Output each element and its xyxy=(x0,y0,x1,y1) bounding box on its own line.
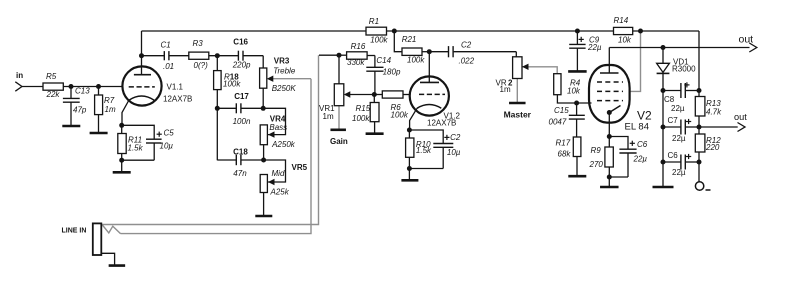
svg-text:C1: C1 xyxy=(161,41,171,50)
svg-text:C2: C2 xyxy=(450,133,461,142)
svg-text:C14: C14 xyxy=(376,56,391,65)
svg-text:R17: R17 xyxy=(556,138,571,147)
svg-text:in: in xyxy=(16,71,23,80)
svg-text:A250k: A250k xyxy=(271,140,296,149)
svg-text:1.5k: 1.5k xyxy=(416,146,432,155)
svg-text:R14: R14 xyxy=(614,16,629,25)
svg-text:1m: 1m xyxy=(500,85,511,94)
svg-text:R3000: R3000 xyxy=(672,65,696,74)
svg-text:220p: 220p xyxy=(232,61,251,70)
svg-text:R21: R21 xyxy=(402,35,417,44)
svg-text:C2: C2 xyxy=(461,40,472,49)
svg-text:100k: 100k xyxy=(352,114,370,123)
svg-text:EL 84: EL 84 xyxy=(625,122,649,133)
svg-text:out: out xyxy=(739,34,754,46)
svg-text:V2: V2 xyxy=(637,109,652,123)
svg-text:0(?): 0(?) xyxy=(194,61,209,70)
svg-text:1m: 1m xyxy=(105,105,116,114)
svg-text:270: 270 xyxy=(589,160,604,169)
svg-text:R15: R15 xyxy=(356,104,371,113)
svg-text:C5: C5 xyxy=(164,129,175,138)
svg-text:VR5: VR5 xyxy=(292,163,308,172)
svg-text:22µ: 22µ xyxy=(671,104,685,113)
svg-text:47n: 47n xyxy=(233,169,247,178)
svg-text:10k: 10k xyxy=(618,36,632,45)
svg-text:.01: .01 xyxy=(163,62,174,71)
svg-text:10k: 10k xyxy=(567,87,581,96)
svg-text:C8: C8 xyxy=(664,95,675,104)
svg-text:4.7k: 4.7k xyxy=(706,108,722,117)
svg-text:B250K: B250K xyxy=(272,84,297,93)
svg-text:1.5k: 1.5k xyxy=(128,144,144,153)
svg-text:R7: R7 xyxy=(104,96,115,105)
svg-text:100k: 100k xyxy=(223,80,241,89)
svg-text:10µ: 10µ xyxy=(447,148,461,157)
svg-text:R16: R16 xyxy=(351,42,366,51)
svg-text:.022: .022 xyxy=(459,56,475,65)
svg-text:C17: C17 xyxy=(234,92,249,101)
svg-text:0047: 0047 xyxy=(549,117,567,126)
svg-text:Mid: Mid xyxy=(272,169,285,178)
svg-text:10µ: 10µ xyxy=(160,142,174,151)
svg-text:Gain: Gain xyxy=(330,137,348,146)
svg-text:180p: 180p xyxy=(383,67,401,76)
svg-text:Master: Master xyxy=(504,110,532,120)
svg-text:Bass: Bass xyxy=(269,123,287,132)
svg-text:22µ: 22µ xyxy=(587,43,602,52)
svg-text:out: out xyxy=(734,112,747,122)
svg-text:1m: 1m xyxy=(323,112,334,121)
svg-text:22µ: 22µ xyxy=(672,134,686,143)
svg-text:Treble: Treble xyxy=(273,66,296,75)
svg-text:R5: R5 xyxy=(46,72,57,81)
svg-text:C13: C13 xyxy=(75,87,90,96)
svg-text:100k: 100k xyxy=(391,111,409,120)
svg-text:100k: 100k xyxy=(370,36,388,45)
svg-text:22µ: 22µ xyxy=(672,168,686,177)
svg-text:68k: 68k xyxy=(558,150,572,159)
svg-text:R1: R1 xyxy=(369,17,379,26)
svg-text:V1.1: V1.1 xyxy=(167,83,184,92)
svg-text:47p: 47p xyxy=(73,106,87,115)
svg-text:C15: C15 xyxy=(554,106,569,115)
svg-text:C7: C7 xyxy=(668,116,679,125)
svg-text:LINE IN: LINE IN xyxy=(62,228,87,235)
svg-text:R9: R9 xyxy=(591,146,602,155)
svg-text:12AX7B: 12AX7B xyxy=(427,119,456,128)
svg-text:100k: 100k xyxy=(407,56,425,65)
svg-text:C6: C6 xyxy=(668,151,679,160)
svg-text:12AX7B: 12AX7B xyxy=(163,95,192,104)
svg-text:330k: 330k xyxy=(347,58,365,67)
svg-text:C18: C18 xyxy=(233,148,248,157)
svg-text:100n: 100n xyxy=(233,117,251,126)
svg-text:22µ: 22µ xyxy=(633,155,648,164)
svg-text:C16: C16 xyxy=(233,38,248,47)
svg-text:22k: 22k xyxy=(46,90,61,99)
svg-text:A25k: A25k xyxy=(270,188,290,197)
svg-text:VR3: VR3 xyxy=(274,57,290,66)
svg-text:C6: C6 xyxy=(637,140,648,149)
svg-text:220: 220 xyxy=(705,143,720,152)
svg-text:R3: R3 xyxy=(193,39,204,48)
